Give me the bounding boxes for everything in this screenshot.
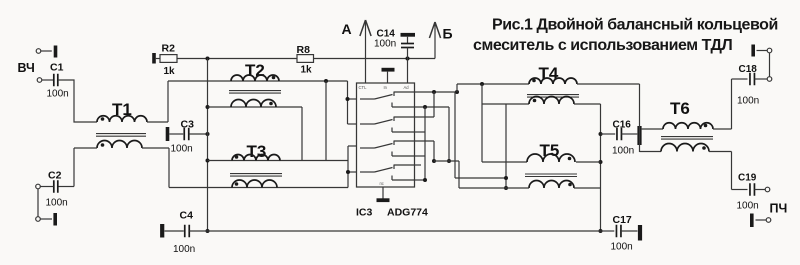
node Б arrow bbox=[429, 22, 452, 59]
wire bbox=[169, 187, 348, 189]
transformer T1 top winding bbox=[97, 116, 147, 122]
wire bbox=[456, 84, 458, 92]
wire bbox=[640, 151, 662, 153]
node A arrow bbox=[342, 20, 372, 83]
wire bbox=[574, 104, 601, 231]
svg-text:Б: Б bbox=[443, 26, 453, 42]
node bbox=[206, 132, 210, 136]
wire bbox=[415, 92, 435, 117]
transformer T6 bottom winding bbox=[661, 144, 709, 152]
transformer T4 top winding bbox=[529, 78, 577, 84]
wire bbox=[459, 187, 529, 189]
transformer T4 label bbox=[539, 64, 559, 83]
input terminal bbox=[36, 184, 54, 189]
output terminal (IF) bbox=[765, 187, 770, 192]
ground bbox=[382, 68, 395, 83]
transformer T1 bottom winding bbox=[97, 141, 142, 149]
wire bbox=[407, 59, 409, 84]
svg-text:Ad: Ad bbox=[404, 85, 410, 90]
wire bbox=[448, 107, 450, 161]
wire bbox=[639, 84, 641, 152]
svg-text:А: А bbox=[342, 21, 352, 37]
ground bbox=[750, 214, 754, 228]
ground bbox=[401, 33, 416, 37]
transformer T1 core bbox=[96, 134, 146, 137]
resistor R8 bbox=[297, 44, 314, 76]
transformer T6 core bbox=[661, 137, 713, 140]
switch S4 inside IC3 bbox=[360, 165, 415, 181]
label ВЧ bbox=[18, 61, 35, 75]
wire bbox=[156, 58, 160, 60]
caption line 2 bbox=[473, 37, 732, 54]
svg-text:R2: R2 bbox=[162, 43, 176, 55]
svg-text:In: In bbox=[384, 85, 388, 90]
svg-text:C4: C4 bbox=[180, 210, 194, 222]
transformer T6 top winding bbox=[663, 123, 713, 129]
node bbox=[346, 170, 350, 174]
switch S2 inside IC3 bbox=[360, 117, 415, 133]
wire bbox=[58, 148, 97, 187]
transformer T4 core bbox=[527, 95, 579, 98]
label ПЧ bbox=[770, 202, 788, 216]
node bbox=[447, 159, 451, 163]
transformer T3 bottom winding bbox=[232, 180, 277, 187]
transformer T5 label bbox=[540, 141, 560, 160]
ground bbox=[166, 127, 170, 141]
op-amp U1 IC3 ADG774 box bbox=[357, 83, 415, 187]
svg-text:ADG774: ADG774 bbox=[387, 207, 428, 219]
wire bbox=[574, 187, 601, 189]
capacitor C2 bbox=[46, 170, 68, 209]
ground bbox=[377, 187, 390, 202]
input terminal (gnd) bbox=[36, 217, 52, 222]
wire bbox=[482, 84, 527, 162]
svg-text:IC3: IC3 bbox=[356, 207, 373, 219]
svg-text:100n: 100n bbox=[171, 144, 193, 155]
transformer T6 label bbox=[670, 99, 690, 118]
node bbox=[206, 159, 210, 163]
node bbox=[504, 176, 508, 180]
wire bbox=[142, 148, 169, 188]
wire bbox=[415, 141, 435, 161]
transformer T3 core bbox=[230, 174, 282, 177]
caption line 1 bbox=[492, 17, 778, 34]
svg-text:T2: T2 bbox=[245, 61, 265, 80]
wire bbox=[58, 80, 97, 122]
transformer T5 bottom winding bbox=[529, 181, 574, 189]
wire bbox=[314, 58, 436, 60]
svg-text:100n: 100n bbox=[737, 201, 759, 212]
wire bbox=[601, 230, 615, 232]
node bbox=[480, 82, 484, 86]
ground bbox=[54, 46, 58, 58]
capacitor C19 bbox=[737, 173, 766, 212]
svg-text:C3: C3 bbox=[181, 119, 195, 131]
svg-text:1k: 1k bbox=[301, 65, 313, 76]
node bbox=[432, 159, 436, 163]
ground bbox=[152, 53, 156, 64]
transformer T5 core bbox=[525, 174, 577, 177]
node bbox=[455, 90, 459, 94]
pin label Ad bbox=[404, 85, 410, 90]
ground bbox=[638, 225, 642, 241]
svg-text:100n: 100n bbox=[173, 244, 195, 255]
transformer T3 label bbox=[247, 142, 267, 161]
wire bbox=[482, 103, 529, 105]
node bbox=[599, 229, 603, 233]
ground bbox=[160, 224, 164, 238]
capacitor C16 bbox=[601, 120, 638, 157]
node bbox=[324, 79, 328, 83]
svg-text:смеситель с использованием ТДЛ: смеситель с использованием ТДЛ bbox=[473, 37, 732, 54]
node bbox=[423, 178, 427, 182]
wire bbox=[415, 91, 458, 93]
transformer T2 bottom winding bbox=[231, 100, 276, 107]
svg-text:ВЧ: ВЧ bbox=[18, 61, 35, 75]
svg-text:R8: R8 bbox=[297, 44, 311, 56]
capacitor C18 bbox=[732, 64, 768, 107]
pin label In bbox=[384, 85, 388, 90]
capacitor C4 bbox=[165, 210, 208, 256]
wire bbox=[42, 79, 54, 81]
svg-text:C2: C2 bbox=[48, 170, 62, 182]
node bbox=[599, 160, 603, 164]
wire bbox=[325, 81, 327, 161]
transformer T4 bottom winding bbox=[529, 97, 574, 104]
node bbox=[206, 57, 210, 61]
output terminal bbox=[767, 48, 772, 53]
transformer T5 top winding bbox=[527, 154, 575, 162]
svg-text:C1: C1 bbox=[50, 62, 64, 74]
node bbox=[206, 229, 210, 233]
pin label nc bbox=[380, 181, 384, 186]
wire bbox=[415, 106, 450, 108]
input terminal (RF top) bbox=[36, 49, 41, 54]
capacitor C14 bbox=[374, 29, 414, 59]
wire bbox=[457, 83, 529, 85]
svg-text:100n: 100n bbox=[374, 39, 396, 50]
svg-text:Рис.1 Двойной балансный кольце: Рис.1 Двойной балансный кольцевой bbox=[492, 17, 778, 34]
wire bbox=[41, 50, 52, 52]
wire bbox=[642, 128, 663, 130]
node bbox=[432, 90, 436, 94]
node bbox=[206, 105, 210, 109]
svg-text:T6: T6 bbox=[670, 99, 690, 118]
transformer T2 top winding bbox=[231, 75, 279, 81]
node bbox=[423, 105, 427, 109]
svg-text:100n: 100n bbox=[737, 96, 759, 107]
label ADG774 bbox=[387, 207, 428, 219]
transformer T2 label bbox=[245, 61, 265, 80]
transformer T2 core bbox=[229, 91, 281, 94]
wire bbox=[348, 146, 357, 188]
ground bbox=[637, 126, 641, 145]
node bbox=[504, 186, 508, 190]
svg-text:C16: C16 bbox=[613, 120, 632, 131]
ground bbox=[53, 213, 57, 226]
wire bbox=[709, 152, 748, 190]
wire bbox=[208, 230, 601, 232]
svg-text:100n: 100n bbox=[611, 242, 633, 253]
label IC3 bbox=[356, 207, 373, 219]
svg-text:CTL: CTL bbox=[359, 85, 368, 90]
resistor R2 bbox=[160, 43, 177, 78]
node bbox=[599, 132, 603, 136]
transformer T1 label bbox=[112, 100, 132, 119]
wire bbox=[713, 79, 732, 129]
svg-text:C17: C17 bbox=[613, 214, 632, 226]
wire bbox=[577, 83, 640, 85]
wire bbox=[757, 50, 768, 52]
output terminal bbox=[767, 77, 772, 82]
svg-text:100n: 100n bbox=[612, 146, 634, 157]
svg-text:C18: C18 bbox=[739, 64, 758, 75]
wire bbox=[415, 107, 426, 180]
wire bbox=[147, 81, 168, 122]
wire bbox=[168, 80, 348, 82]
capacitor C1 bbox=[47, 62, 69, 100]
output terminal (gnd) bbox=[766, 218, 771, 223]
transformer T3 top winding bbox=[232, 155, 280, 161]
wire bbox=[756, 219, 767, 221]
wire bbox=[301, 107, 303, 161]
switch S3 inside IC3 bbox=[360, 141, 415, 157]
wire bbox=[415, 164, 422, 166]
svg-text:ПЧ: ПЧ bbox=[770, 202, 788, 216]
capacitor C17 bbox=[611, 214, 638, 253]
svg-text:C19: C19 bbox=[738, 173, 757, 184]
switch S1 inside IC3 bbox=[360, 92, 415, 108]
wire bbox=[177, 58, 297, 60]
node bbox=[346, 97, 350, 101]
wire bbox=[576, 161, 601, 163]
svg-text:пс: пс bbox=[380, 181, 384, 186]
wire bbox=[505, 104, 507, 188]
wire bbox=[769, 53, 771, 77]
wire bbox=[37, 189, 39, 217]
input terminal (RF) bbox=[37, 78, 42, 83]
svg-text:100n: 100n bbox=[47, 89, 69, 100]
wire bbox=[434, 161, 459, 188]
ground bbox=[751, 45, 755, 57]
capacitor C3 bbox=[169, 119, 207, 155]
pin label CTL bbox=[359, 85, 368, 90]
wire bbox=[208, 160, 349, 162]
wire bbox=[348, 81, 357, 124]
wire bbox=[207, 59, 209, 232]
svg-text:1k: 1k bbox=[164, 66, 176, 77]
node bbox=[406, 57, 410, 61]
svg-text:100n: 100n bbox=[46, 198, 68, 209]
wire bbox=[208, 106, 303, 108]
wire bbox=[455, 92, 506, 178]
